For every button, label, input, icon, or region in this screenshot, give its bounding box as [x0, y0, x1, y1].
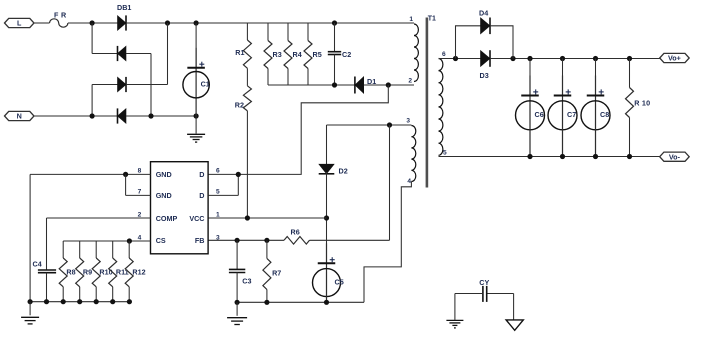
svg-text:D: D [199, 170, 204, 179]
svg-text:GND: GND [156, 191, 172, 200]
svg-text:C2: C2 [342, 50, 351, 59]
svg-text:1: 1 [409, 16, 413, 23]
svg-text:R: R [61, 11, 67, 20]
svg-text:6: 6 [442, 51, 446, 58]
svg-text:5: 5 [216, 189, 220, 196]
svg-text:C8: C8 [600, 110, 609, 119]
svg-text:T1: T1 [428, 16, 436, 23]
svg-text:R6: R6 [291, 228, 300, 237]
svg-text:DB1: DB1 [117, 3, 131, 12]
svg-text:R 10: R 10 [634, 99, 650, 108]
svg-text:CS: CS [156, 236, 166, 245]
svg-text:D2: D2 [339, 167, 348, 176]
svg-text:6: 6 [216, 168, 220, 175]
svg-text:R9: R9 [83, 268, 92, 277]
svg-text:C1: C1 [201, 80, 210, 89]
svg-text:8: 8 [138, 168, 142, 175]
svg-text:C6: C6 [535, 110, 544, 119]
svg-text:VCC: VCC [189, 214, 204, 223]
svg-text:R5: R5 [313, 50, 322, 59]
svg-text:D: D [199, 191, 204, 200]
svg-text:R7: R7 [272, 269, 281, 278]
svg-text:7: 7 [138, 189, 142, 196]
svg-text:R3: R3 [273, 50, 282, 59]
svg-text:CY: CY [479, 278, 489, 287]
svg-text:1: 1 [216, 211, 220, 218]
svg-text:F: F [54, 11, 59, 20]
svg-text:D4: D4 [479, 9, 488, 18]
svg-text:GND: GND [156, 170, 172, 179]
svg-text:COMP: COMP [156, 214, 178, 223]
svg-text:R2: R2 [235, 101, 244, 110]
svg-text:FB: FB [195, 236, 205, 245]
svg-text:C7: C7 [567, 110, 576, 119]
svg-text:R10: R10 [99, 268, 112, 277]
svg-text:N: N [17, 112, 22, 121]
svg-text:2: 2 [138, 211, 142, 218]
svg-text:R4: R4 [293, 50, 302, 59]
svg-text:Vo-: Vo- [669, 152, 681, 161]
svg-text:5: 5 [443, 150, 447, 157]
svg-text:R1: R1 [235, 48, 244, 57]
svg-text:3: 3 [406, 118, 410, 125]
svg-text:C5: C5 [335, 277, 344, 286]
svg-text:C4: C4 [33, 260, 42, 269]
svg-text:3: 3 [216, 234, 220, 241]
svg-text:4: 4 [138, 234, 142, 241]
svg-text:R8: R8 [66, 268, 75, 277]
svg-text:C3: C3 [242, 277, 251, 286]
svg-text:Vo+: Vo+ [668, 54, 681, 63]
svg-text:4: 4 [407, 178, 411, 185]
svg-text:R11: R11 [116, 268, 129, 277]
svg-text:L: L [17, 19, 22, 28]
svg-text:2: 2 [408, 78, 412, 85]
svg-text:D3: D3 [480, 71, 489, 80]
svg-text:R12: R12 [132, 268, 145, 277]
